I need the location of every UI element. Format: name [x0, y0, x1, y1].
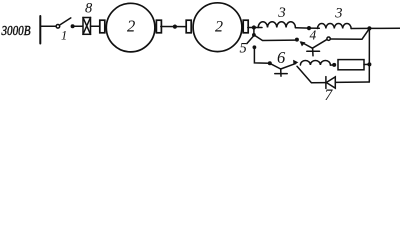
- wire resistor to node G: [364, 63, 369, 65]
- wire switch5 top contact to contactor 4 fixed contact: [254, 35, 295, 41]
- wire M1 to M2: [161, 26, 187, 28]
- svg-text:5: 5: [240, 41, 247, 57]
- machine M1: [106, 3, 155, 52]
- wire switch 5 down to contactor 6: [254, 47, 269, 63]
- wire 3b to node C: [351, 27, 369, 29]
- right vertical wire node C down to diode row: [368, 28, 370, 82]
- wire diode to right vertical corner: [335, 81, 369, 83]
- svg-text:8: 8: [85, 0, 93, 16]
- svg-text:3: 3: [277, 5, 286, 21]
- wire contactor 4 pivot to node C: [330, 29, 369, 40]
- node G on right vertical: [367, 62, 371, 66]
- switch 5 top contact node: [252, 33, 256, 37]
- field inductor (lower branch): [300, 61, 330, 66]
- terminal bar: [39, 16, 41, 44]
- wire from field node down to diode row: [297, 66, 326, 83]
- brush right of machine M2: [243, 20, 248, 33]
- node A (main junction after M2): [252, 25, 256, 29]
- diode 7: [326, 77, 335, 89]
- svg-text:2: 2: [215, 19, 223, 36]
- fuse 8: [83, 18, 91, 35]
- svg-text:6: 6: [277, 48, 286, 67]
- switch 5 bottom contact node: [253, 45, 257, 49]
- machine M2: [193, 3, 242, 52]
- svg-text:1: 1: [61, 29, 67, 43]
- switch 1 blade: [60, 18, 71, 25]
- svg-text:4: 4: [310, 28, 317, 43]
- node before resistor: [332, 63, 336, 67]
- svg-text:7: 7: [325, 87, 334, 103]
- node B between inductors: [307, 26, 311, 30]
- wire brush to node A: [248, 27, 262, 29]
- wire node A down to switch 5 top contact: [253, 28, 255, 35]
- node between machines: [173, 25, 177, 29]
- contactor 4 pivot: [327, 37, 330, 40]
- svg-text:3000В: 3000В: [1, 23, 31, 38]
- brush left of machine M1: [100, 20, 105, 33]
- svg-text:2: 2: [127, 17, 135, 36]
- contactor 6 moving blade with arrow: [270, 60, 299, 69]
- wire switch 1 to fuse 8: [73, 25, 83, 27]
- contactor 4 fixed contact node: [295, 38, 299, 42]
- node C (top right junction): [367, 26, 371, 30]
- wire fuse to brush: [91, 25, 101, 27]
- inductor 3a: [258, 22, 295, 28]
- wire inductor to resistor node: [330, 64, 334, 66]
- wire from bar to switch 1: [41, 25, 56, 27]
- wire node C to right edge: [369, 27, 400, 29]
- inductor 3b: [318, 24, 352, 29]
- contactor 4 moving blade with arrow: [299, 39, 327, 48]
- brush left of machine M2: [186, 20, 191, 33]
- switch 5 blade: [247, 36, 254, 43]
- brush right of machine M1: [156, 20, 161, 33]
- wire node B to 3b: [309, 27, 319, 29]
- svg-text:3: 3: [334, 6, 342, 22]
- contactor 4 actuator tee: [307, 48, 320, 56]
- wire 3a to node B: [295, 27, 309, 29]
- switch 1 fixed contact node: [71, 24, 75, 28]
- resistor: [338, 60, 364, 70]
- contactor 6 fixed contact node: [268, 61, 272, 65]
- contactor 6 actuator tee: [275, 69, 287, 76]
- switch 1 pivot: [56, 25, 60, 29]
